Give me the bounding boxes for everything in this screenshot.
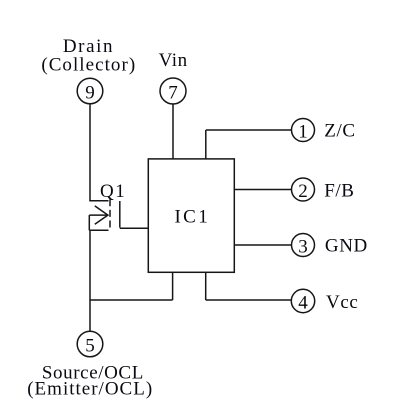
wire Q1 source bar [89, 229, 108, 231]
wire to pin4 horizontal [206, 299, 292, 301]
svg-text:F/B: F/B [324, 181, 354, 202]
transistor Q1 channel (dashed) [109, 199, 111, 228]
transistor Q1 gate bar [119, 201, 121, 228]
svg-text:5: 5 [85, 335, 95, 356]
wire IC to pin3 [234, 244, 291, 246]
svg-text:9: 9 [85, 82, 95, 103]
svg-text:(Emitter/OCL): (Emitter/OCL) [27, 379, 153, 400]
svg-text:Vcc: Vcc [326, 292, 358, 313]
svg-text:(Collector): (Collector) [41, 55, 136, 76]
wire pin7 to IC top [172, 104, 174, 159]
wire pin9 to Q1 drain [89, 104, 91, 201]
wire source junction to IC bottom horizontal [90, 299, 173, 301]
pin 1 circle [292, 119, 315, 142]
svg-text:7: 7 [168, 82, 178, 103]
pin 3 circle [292, 234, 315, 257]
svg-text:Z/C: Z/C [324, 121, 355, 142]
wire pin1 horizontal [206, 129, 292, 131]
wire IC bottom to pin4 vertical [205, 272, 207, 300]
svg-text:3: 3 [298, 236, 308, 257]
svg-text:4: 4 [298, 292, 308, 313]
pin 4 circle [291, 289, 314, 312]
svg-text:2: 2 [298, 181, 308, 202]
wire Q1 gate to IC1 [120, 227, 149, 229]
svg-text:Vin: Vin [159, 50, 188, 71]
IC U1 box [148, 159, 234, 272]
transistor Q1 body arrow shaft [89, 214, 107, 216]
svg-text:1: 1 [298, 121, 308, 142]
wire IC bottom left vertical [172, 272, 174, 300]
wire Q1 drain bar [89, 200, 108, 202]
pin 7 circle [160, 78, 186, 104]
pin 9 circle [77, 78, 103, 104]
svg-text:GND: GND [325, 236, 368, 257]
svg-text:Q1: Q1 [100, 181, 126, 202]
pin 2 circle [292, 178, 315, 201]
transistor Q1 source stem [88, 215, 90, 230]
wire Q1 source to pin5 [89, 230, 91, 331]
wire IC to pin2 [234, 189, 291, 191]
pin 5 circle [77, 331, 103, 357]
wire pin1 vertical to IC top [205, 130, 207, 159]
transistor Q1 body arrowhead [95, 206, 108, 224]
svg-text:IC1: IC1 [174, 207, 210, 228]
